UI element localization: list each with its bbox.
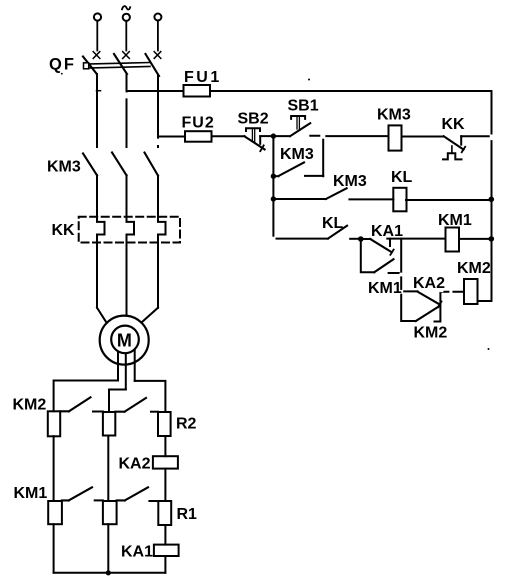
svg-text:KL: KL [322, 215, 344, 232]
svg-text:SB2: SB2 [238, 110, 269, 127]
svg-text:KM1: KM1 [14, 485, 48, 502]
svg-text:KM2: KM2 [13, 397, 47, 414]
svg-text:KK: KK [442, 116, 466, 133]
svg-text:KK: KK [52, 222, 76, 239]
svg-text:R2: R2 [176, 416, 197, 433]
svg-text:KM2: KM2 [414, 324, 448, 341]
svg-text:KA1: KA1 [371, 223, 403, 240]
svg-text:KA1: KA1 [121, 544, 153, 561]
svg-text:SB1: SB1 [288, 98, 319, 115]
svg-text:KM3: KM3 [47, 159, 81, 176]
svg-text:KM3: KM3 [333, 173, 367, 190]
svg-text:QF: QF [49, 56, 76, 74]
svg-text:KM3: KM3 [280, 146, 314, 163]
svg-text:M: M [117, 331, 132, 351]
svg-text:KM1: KM1 [438, 212, 472, 229]
svg-text:KA2: KA2 [413, 275, 445, 292]
svg-text:FU2: FU2 [182, 115, 215, 132]
svg-text:KA2: KA2 [119, 456, 151, 473]
svg-text:KM3: KM3 [377, 106, 411, 123]
svg-text:FU1: FU1 [184, 69, 222, 86]
svg-text:R1: R1 [177, 506, 198, 523]
svg-text:KM2: KM2 [457, 260, 491, 277]
svg-text:KL: KL [391, 169, 413, 186]
svg-text:KM1: KM1 [368, 280, 402, 297]
